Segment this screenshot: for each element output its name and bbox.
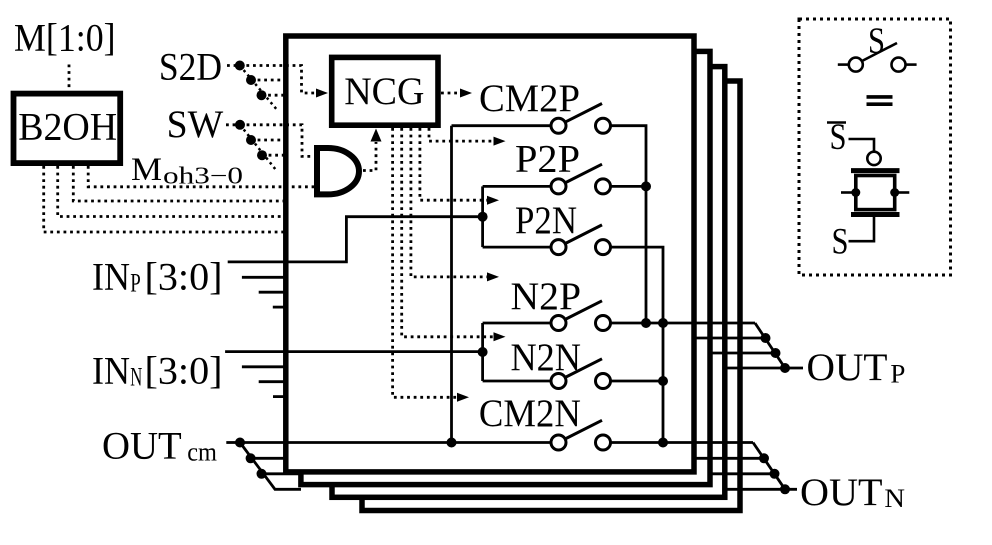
switch CM2P (479, 77, 611, 133)
B2OH output bus M_oh bit3 (dotted L) (44, 166, 284, 232)
P2N right wire to bus B (610, 247, 663, 442)
switch P2P right terminal (596, 179, 611, 194)
stacked layer box 2 (301, 51, 710, 484)
svg-text:CM2P: CM2P (479, 77, 580, 120)
svg-text:S2D: S2D (159, 45, 222, 88)
svg-text:CM2N: CM2N (479, 392, 581, 435)
wire S2D to fan dot (dotted) (227, 64, 238, 67)
NCG output to CM2P (dotted arrow) (441, 92, 460, 95)
IN_N layer2 stub (242, 365, 284, 368)
transmission gate left terminal (841, 191, 856, 194)
switch N2P left terminal (551, 316, 566, 331)
legend dotted border (799, 19, 951, 275)
switch N2P lever (565, 301, 602, 320)
svg-text:IN: IN (92, 350, 130, 393)
junction dot P2P on bus A (641, 181, 651, 191)
svg-text:OUT: OUT (807, 346, 888, 389)
svg-text:N: N (130, 363, 142, 392)
svg-text:P2P: P2P (515, 138, 580, 181)
arrowhead into NCG bottom (371, 129, 382, 142)
block NCG (332, 57, 438, 125)
svg-text:OUT: OUT (800, 471, 883, 514)
S2D fan dot 1 (235, 61, 245, 71)
SW fan dot 3 (257, 150, 267, 160)
legend switch left stub (838, 63, 849, 66)
switch N2P (511, 275, 611, 330)
P2P left wire (483, 185, 551, 188)
legend switch right circle (892, 58, 906, 72)
switch N2N lever (565, 359, 602, 378)
legend switch lever (862, 43, 897, 61)
OUT_N layer2 wire (694, 457, 764, 460)
OUT_P collector diagonal (755, 323, 803, 368)
NCG output to P2P (dotted) (429, 128, 494, 141)
IN_N layer3 stub (259, 380, 284, 383)
switch P2N (515, 199, 611, 255)
switch P2P left terminal (551, 179, 566, 194)
OUT_P junction dot layer3 (771, 348, 781, 358)
OUT_N junction dot layer2 (759, 453, 769, 463)
N2P left wire (483, 322, 551, 325)
OUT_N junction dot layer3 (770, 469, 780, 479)
OUT_cm wire to fan dot (226, 441, 240, 444)
switch CM2N right terminal (596, 435, 611, 450)
svg-text:S: S (832, 221, 849, 262)
OUT_P layer3 wire (710, 352, 776, 355)
SW fan dot 2 (246, 135, 256, 145)
switch P2P lever (565, 164, 602, 183)
svg-text:[3:0]: [3:0] (145, 350, 223, 393)
switch N2N left terminal (551, 374, 566, 389)
P bracket vertical (481, 186, 484, 247)
stacked layer box 3 (332, 67, 725, 498)
B2OH output bus M_oh bit0 (dotted L) (88, 166, 314, 187)
OUT_cm fan dot 2 (246, 453, 256, 463)
SW layer3 wire (dotted) (262, 154, 284, 157)
svg-text:IN: IN (92, 256, 130, 299)
arrowhead into NCG left (316, 89, 328, 98)
junction dot bus B on OUT_N row (658, 438, 668, 448)
AND output to NCG (dotted, up arrow) (363, 142, 376, 171)
S2D layer2 wire (dotted) (251, 79, 284, 82)
OUT_cm main wire (layer1) to CM2N switch (240, 441, 551, 444)
S2D fan dot 3 (257, 90, 267, 100)
svg-text:[3:0]: [3:0] (145, 256, 223, 299)
SW layer1 wire into box, to AND gate top input (dotted) (240, 125, 314, 157)
junction dot bus A on OUT_P row (641, 318, 651, 328)
transmission gate PMOS bubble (867, 152, 880, 165)
svg-text:B2OH: B2OH (18, 106, 117, 149)
svg-text:P2N: P2N (515, 199, 577, 242)
wire SW to fan dot (dotted) (226, 123, 238, 126)
IN_N layer4 stub (273, 395, 284, 398)
S2D fan dot 2 (246, 75, 256, 85)
switch CM2P lever (565, 104, 602, 123)
NCG output to P2N (dotted) (420, 128, 487, 200)
SW fan diagonal (dotted) (240, 125, 276, 170)
svg-text:P: P (130, 269, 141, 298)
IN_P layer4 stub (273, 306, 284, 309)
CM2P right wire to bus A (610, 126, 646, 323)
main switch-matrix box (front layer 1) (286, 36, 694, 472)
legend switch right stub (906, 63, 917, 66)
P2N left wire (483, 246, 551, 249)
switch P2N lever (565, 225, 602, 244)
S2D layer1 wire into box, to NCG (dotted) (240, 66, 317, 94)
legend switch left circle (849, 58, 863, 72)
NCG output to N2P (dotted) (411, 128, 487, 277)
transmission gate bottom gate bar (851, 212, 900, 217)
IN_P layer2 stub (242, 276, 284, 279)
switch P2P (515, 138, 611, 194)
switch CM2N (479, 392, 611, 450)
NCG output to N2N (dotted) (402, 128, 494, 337)
switch N2N (511, 336, 611, 389)
svg-text:NCG: NCG (344, 70, 424, 113)
N2N left wire (483, 380, 551, 383)
OUT_P layer2 wire (694, 337, 766, 340)
N bracket vertical (481, 323, 484, 381)
switch P2N right terminal (596, 240, 611, 255)
CM2N right wire = OUT_N row (610, 441, 753, 444)
svg-text:M[1:0]: M[1:0] (14, 17, 116, 60)
OUT_N junction dot layer4 (780, 484, 790, 494)
P2P right wire (610, 185, 646, 188)
OUT_cm layer2 wire (251, 457, 284, 460)
OUT_cm fan dot 3 (257, 469, 267, 479)
switch CM2P left terminal (551, 118, 566, 133)
B2OH output bus M_oh bit1 (dotted L) (73, 166, 283, 201)
wire M[1:0] to B2OH (dotted) (68, 65, 71, 91)
OUT_P junction dot layer4 (780, 363, 790, 373)
OUT_P layer4 wire (726, 367, 785, 370)
OUT_cm fan diagonal (240, 443, 301, 490)
transmission gate S wire (849, 217, 875, 241)
IN_N layer1 wire to N bracket (225, 350, 483, 353)
stacked layer box 4 (back) (362, 81, 740, 511)
junction dot IN_P on bracket (478, 212, 488, 222)
svg-text:oh3−0: oh3−0 (163, 164, 243, 190)
NCG output to CM2N (dotted) (393, 128, 457, 397)
transmission gate right terminal (895, 191, 910, 194)
svg-text:cm: cm (187, 437, 217, 466)
IN_P layer3 stub (259, 291, 284, 294)
svg-text:N2P: N2P (511, 275, 582, 318)
switch CM2N left terminal (551, 435, 566, 450)
junction dot IN_N on bracket (478, 347, 488, 357)
svg-text:N2N: N2N (511, 336, 582, 379)
transmission gate top gate bar (851, 168, 900, 173)
junction dot bus B on OUT_P row (658, 318, 668, 328)
IN_P layer1 wire with jog to P bracket (228, 217, 483, 262)
SW fan dot 1 (235, 120, 245, 130)
AND gate (317, 148, 359, 194)
transmission gate channel box (856, 176, 895, 210)
junction dot CM2P feed on OUT_cm (447, 438, 457, 448)
junction dot N2N on bus B (658, 376, 668, 386)
S2D fan diagonal (dotted) (240, 66, 278, 112)
N2P right wire = OUT_P row (610, 322, 755, 325)
SW layer2 wire (dotted) (251, 139, 284, 142)
OUT_P junction dot layer2 (761, 333, 771, 343)
svg-text:N: N (884, 484, 905, 513)
switch CM2P right terminal (596, 118, 611, 133)
OUT_N layer4 wire (726, 488, 785, 491)
switch N2N right terminal (596, 374, 611, 389)
svg-text:M: M (131, 152, 162, 188)
CM2P feed vertical from OUT_cm (450, 126, 453, 443)
block B2OH (14, 94, 121, 164)
CM2P left wire (452, 124, 552, 127)
switch P2N left terminal (551, 240, 566, 255)
switch CM2N lever (565, 420, 602, 439)
svg-text:OUT: OUT (102, 424, 182, 467)
OUT_N collector diagonal (753, 443, 797, 490)
legend equals sign (867, 95, 893, 99)
B2OH output bus M_oh bit2 (dotted L) (58, 166, 284, 217)
transmission gate S-bar wire (849, 139, 875, 152)
OUT_cm fan dot 1 (235, 438, 245, 448)
OUT_N layer3 wire (710, 472, 775, 475)
switch N2P right terminal (596, 316, 611, 331)
S2D layer3 wire (dotted) (262, 94, 284, 97)
svg-text:SW: SW (167, 103, 224, 146)
svg-text:P: P (890, 359, 905, 388)
OUT_cm layer3 wire (262, 472, 301, 475)
N2N right wire (610, 380, 663, 383)
